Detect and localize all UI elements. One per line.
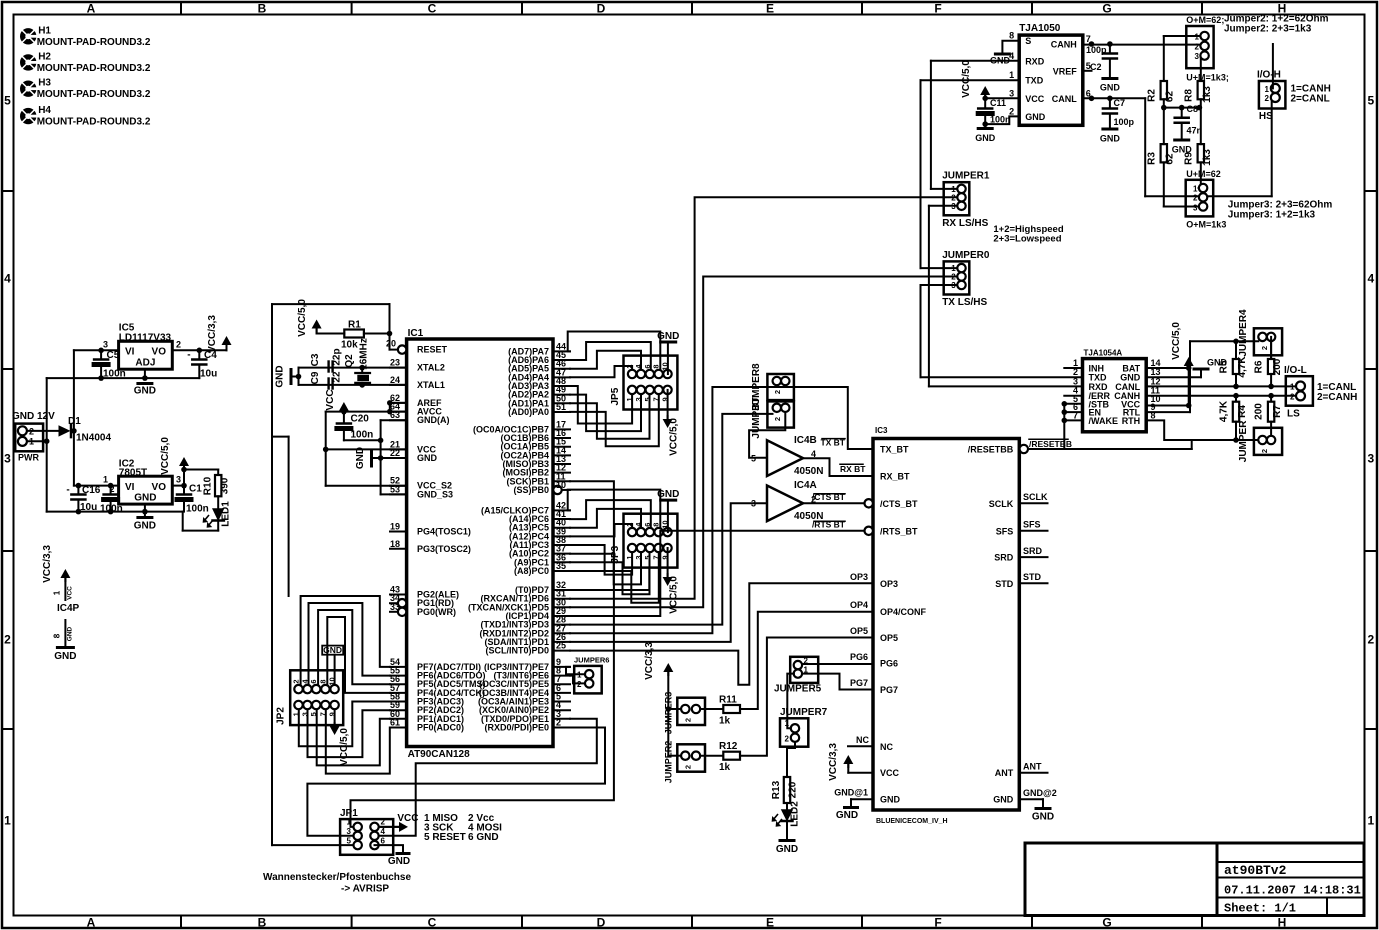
svg-text:3: 3 <box>4 452 11 466</box>
resistor R3 62 <box>1161 144 1167 162</box>
svg-text:2: 2 <box>1260 346 1269 350</box>
svg-text:6 GND: 6 GND <box>468 832 499 843</box>
capacitor C2 100p <box>1109 44 1111 54</box>
wires port C to JP3 maze <box>568 490 661 527</box>
wire CANH to IO-L pin2 <box>1146 395 1296 397</box>
svg-text:GND: GND <box>134 386 156 397</box>
wire VCC pin to AVCC rail <box>326 448 407 450</box>
wire IC5 VO to VCC33 arrow <box>172 349 226 351</box>
pin 4 ERR stub <box>1064 395 1082 397</box>
svg-text:R7: R7 <box>1272 405 1283 418</box>
net stub SFS <box>1019 530 1047 532</box>
svg-text:RX_BT: RX_BT <box>880 472 910 482</box>
wire IC2 VI line <box>74 485 119 487</box>
mounting hole H3 <box>20 81 36 97</box>
svg-text:4: 4 <box>1367 272 1374 286</box>
wire IC2 VO line <box>172 485 184 487</box>
bluetooth module IC3 BLUENICECOM body <box>873 439 1019 811</box>
svg-text:ANT: ANT <box>995 768 1014 778</box>
capacitor C11 100n <box>984 98 986 108</box>
IC1 PF pin stubs and numbers <box>390 666 407 668</box>
wire XTAL1 line <box>299 384 407 386</box>
svg-text:OP4: OP4 <box>850 600 868 610</box>
connector JUMPER4 body <box>1254 328 1282 355</box>
svg-text:G: G <box>1102 916 1111 930</box>
wire RESETBB riser <box>1191 440 1193 449</box>
svg-text:3: 3 <box>103 340 108 350</box>
svg-text:GND: GND <box>134 493 156 504</box>
svg-text:HS: HS <box>1259 111 1273 122</box>
svg-text:C1: C1 <box>189 484 202 495</box>
svg-text:100n: 100n <box>186 504 209 515</box>
svg-text:2: 2 <box>292 679 301 683</box>
svg-text:TXD: TXD <box>1025 76 1044 86</box>
svg-text:VO: VO <box>152 347 167 358</box>
svg-text:GND: GND <box>1032 812 1054 823</box>
svg-text:TX_BT: TX_BT <box>880 445 909 455</box>
svg-text:OP5: OP5 <box>880 633 898 643</box>
wires port A to JP5 maze <box>568 332 661 370</box>
svg-text:2=CANH: 2=CANH <box>1317 392 1357 403</box>
svg-text:Sheet: 1/1: Sheet: 1/1 <box>1224 902 1296 916</box>
svg-text:PG3(TOSC2): PG3(TOSC2) <box>417 544 471 554</box>
ground symbol at C11 <box>984 124 986 128</box>
svg-text:3: 3 <box>176 475 181 485</box>
wire IC4A output to /CTS_BT <box>803 502 864 504</box>
svg-text:C: C <box>428 916 437 930</box>
wire PB1 SCK staircase to JP1 pin1 <box>351 481 614 827</box>
svg-text:GND@1: GND@1 <box>834 788 868 798</box>
connector JUMPER5 body <box>790 657 818 683</box>
svg-text:VCC/3,3: VCC/3,3 <box>42 545 53 583</box>
svg-text:MOUNT-PAD-ROUND3.2: MOUNT-PAD-ROUND3.2 <box>37 37 151 48</box>
svg-text:VCC/5,0: VCC/5,0 <box>961 60 972 98</box>
svg-text:TJA1050: TJA1050 <box>1019 23 1061 34</box>
wire PE1 PDO staircase to JP1 pin4 <box>379 719 597 836</box>
svg-text:22p: 22p <box>332 348 343 365</box>
svg-text:GND(A): GND(A) <box>417 415 450 425</box>
supply VCC/3,3 arrow for jumpers <box>663 663 673 672</box>
svg-text:JUMPER3: JUMPER3 <box>664 692 674 735</box>
wire JP1 pin6 to GND <box>375 845 404 852</box>
svg-text:62: 62 <box>1165 153 1176 165</box>
svg-text:IC3: IC3 <box>875 426 888 435</box>
svg-text:JP5: JP5 <box>610 387 621 405</box>
svg-text:C3: C3 <box>310 353 321 366</box>
svg-text:5: 5 <box>4 94 11 108</box>
capacitor C4 10u <box>198 350 200 359</box>
svg-text:GND: GND <box>67 626 74 641</box>
connector JUMPER10 body <box>677 744 705 771</box>
connector JP3 pin circles <box>628 528 636 536</box>
svg-text:GND: GND <box>1025 112 1046 122</box>
microcontroller IC1 AT90CAN128 body <box>407 339 553 747</box>
svg-text:Wannenstecker/Pfostenbuchse: Wannenstecker/Pfostenbuchse <box>263 872 411 883</box>
svg-text:100n: 100n <box>351 430 374 441</box>
ground symbol IC4P <box>57 646 73 649</box>
svg-text:VCC/5,0: VCC/5,0 <box>160 437 171 475</box>
capacitor C2 100n <box>110 486 112 495</box>
wire LED2 to ground <box>786 821 788 840</box>
pin NC stub <box>848 745 873 747</box>
svg-text:O+M=1k3: O+M=1k3 <box>1186 220 1226 230</box>
ground symbol at LED2 <box>780 839 794 842</box>
wire IC4B output to RX_BT <box>803 458 873 476</box>
wire LED1 to GND rail <box>217 521 219 531</box>
svg-text:GND: GND <box>1100 134 1121 144</box>
wire CANL to IO-L pin1 <box>1146 385 1296 387</box>
wire IC5 ADJ to GND <box>144 369 146 378</box>
connector JP2 body <box>290 670 343 725</box>
connector JP1 body <box>340 819 393 855</box>
svg-text:H: H <box>1278 916 1287 930</box>
svg-text:35: 35 <box>556 561 566 571</box>
svg-text:C: C <box>428 2 437 16</box>
svg-text:PG6: PG6 <box>880 659 898 669</box>
svg-text:PWR: PWR <box>18 453 39 463</box>
crystal Q2 16MHz <box>359 365 365 371</box>
svg-text:(AD0)PA0: (AD0)PA0 <box>508 407 549 417</box>
wire IC2 GND to symbol <box>144 504 146 512</box>
svg-text:IC4B: IC4B <box>794 435 817 446</box>
wire JUMPER5 to JUMPER7 <box>787 674 794 729</box>
wire PE0 PDI staircase to JP1 pin3 <box>307 728 605 836</box>
svg-text:F: F <box>934 916 941 930</box>
ground symbol at crystal <box>290 370 293 384</box>
svg-text:NC: NC <box>856 735 869 745</box>
connector JP5 pin circles <box>628 370 636 378</box>
svg-text:JP2: JP2 <box>275 707 286 725</box>
svg-text:10u: 10u <box>200 369 217 380</box>
svg-text:LED1: LED1 <box>221 501 232 527</box>
svg-text:8: 8 <box>1009 31 1014 41</box>
frame row ticks left <box>2 190 14 192</box>
svg-text:GND: GND <box>993 795 1014 805</box>
svg-text:A: A <box>87 916 96 930</box>
IC1 left pin stubs and numbers <box>398 345 406 353</box>
svg-text:6: 6 <box>309 679 318 683</box>
svg-text:3: 3 <box>1193 204 1198 213</box>
svg-text:G: G <box>1102 2 1111 16</box>
wire R3 bottom to JUMPER3 pin3 <box>1163 162 1165 206</box>
ground symbol at C7 <box>1103 128 1117 131</box>
supply VCC/3,3 at BT VCC pin <box>848 772 873 774</box>
wire PD4 to /RTS_BT <box>570 531 864 616</box>
resistor R11 1k <box>700 708 723 710</box>
wire PD6 RXCAN to JUMPER1 pin2 <box>570 197 957 598</box>
svg-text:JUMPER4: JUMPER4 <box>1238 309 1249 357</box>
wire GND 12V line toward JP2 <box>272 436 289 438</box>
svg-text:JUMPER0: JUMPER0 <box>942 250 990 261</box>
wires port F to JP2 maze <box>301 596 390 685</box>
svg-text:PG0(WR): PG0(WR) <box>417 607 456 617</box>
svg-text:ANT: ANT <box>1023 761 1042 771</box>
svg-text:JUMPER6: JUMPER6 <box>574 656 609 665</box>
svg-text:H1: H1 <box>38 25 51 36</box>
svg-text:I/O-H: I/O-H <box>1257 70 1281 81</box>
svg-text:2: 2 <box>1367 633 1374 647</box>
connector JUMPER0 body <box>944 261 970 294</box>
wire R9 bottom to JUMPER3 pin1 <box>1200 162 1202 188</box>
svg-text:1: 1 <box>1290 383 1295 392</box>
svg-text:JUMPER2: JUMPER2 <box>664 741 674 784</box>
pin 1 INH stub <box>1064 367 1082 369</box>
wire JUMPER5 pin2 to PG6 <box>802 663 873 665</box>
svg-text:RTH: RTH <box>1122 416 1141 426</box>
voltage regulator IC2 7805T <box>119 476 173 504</box>
capacitor C7 100p <box>1109 98 1111 108</box>
svg-text:JUMPER: JUMPER <box>1238 420 1249 462</box>
capacitor C9 22 <box>327 379 329 389</box>
svg-text:24: 24 <box>390 375 400 385</box>
wire R11 to OP4 <box>740 612 873 709</box>
pin /RESETBB bubble and label <box>1020 445 1028 453</box>
wire 12V from PWR to diode <box>27 430 59 432</box>
frame row ticks right <box>1365 190 1378 192</box>
svg-text:47n: 47n <box>1187 126 1203 136</box>
svg-text:/CTS_BT: /CTS_BT <box>880 499 918 509</box>
wire R8 top to JUMPER2 pin3 <box>1200 56 1202 81</box>
svg-text:PG6: PG6 <box>850 652 868 662</box>
svg-text:MOUNT-PAD-ROUND3.2: MOUNT-PAD-ROUND3.2 <box>37 63 151 74</box>
wire R6 into JUMPER4 pin2 <box>1270 337 1272 359</box>
svg-text:GND: GND <box>776 844 798 855</box>
svg-text:STD: STD <box>1023 572 1042 582</box>
svg-text:1: 1 <box>1009 70 1014 80</box>
svg-text:GND_S3: GND_S3 <box>417 489 453 499</box>
net stub ANT <box>1019 772 1047 774</box>
svg-text:VCC: VCC <box>67 586 74 600</box>
svg-text:4,7K: 4,7K <box>1237 356 1248 378</box>
svg-text:1: 1 <box>1193 185 1198 194</box>
svg-text:VCC: VCC <box>325 389 336 410</box>
wire PD5 TXCAN to JUMPER0 pin2 <box>570 277 957 608</box>
wire GND rail upper <box>47 377 200 379</box>
svg-text:(RXD0/PDI)PE0: (RXD0/PDI)PE0 <box>484 723 549 733</box>
svg-text:2: 2 <box>1195 42 1200 51</box>
ground symbol at JP1 <box>397 852 409 855</box>
svg-text:VCC/3,3: VCC/3,3 <box>207 315 218 353</box>
supply VCC/5,0 at JP5 <box>667 390 669 419</box>
svg-text:1k3: 1k3 <box>1202 86 1213 103</box>
wire AVCC line <box>326 411 407 413</box>
svg-text:XTAL2: XTAL2 <box>417 363 445 373</box>
wire CANL down and across <box>1144 98 1146 196</box>
buffer IC4B 4050N <box>767 440 803 476</box>
connector JUMPER9 body <box>677 698 705 725</box>
capacitor C20 100n <box>343 412 345 424</box>
connector JUMPER3 body <box>1186 180 1214 217</box>
svg-text:OP4/CONF: OP4/CONF <box>880 607 927 617</box>
net label GND@1 and ground <box>851 798 873 800</box>
svg-text:GND: GND <box>836 810 858 821</box>
svg-text:VCC: VCC <box>1025 94 1045 104</box>
svg-text:GND 12V: GND 12V <box>12 411 55 422</box>
svg-text:NC: NC <box>880 742 893 752</box>
wire GND pin TJA1054 <box>1146 376 1201 378</box>
resistor R10 390 <box>217 470 219 476</box>
net stub GND@2 and ground <box>1019 798 1043 800</box>
svg-text:5: 5 <box>1367 94 1374 108</box>
wire PD2 RXD1 to TX_BT via JUMPER8 <box>570 387 873 633</box>
svg-text:R8: R8 <box>1184 89 1195 102</box>
svg-text:VCC/5,0: VCC/5,0 <box>669 418 680 456</box>
svg-text:JUMPER1: JUMPER1 <box>942 171 990 182</box>
svg-text:LD1117V33: LD1117V33 <box>119 332 172 343</box>
svg-text:VCC/3,3: VCC/3,3 <box>828 743 839 781</box>
wire RTL to JUMPER4 <box>1146 411 1190 413</box>
supply symbol VCC/3,3 at IC5 output <box>222 336 232 345</box>
svg-text:4050N: 4050N <box>794 466 823 477</box>
svg-text:D: D <box>597 2 606 16</box>
wire PD1 to IC4A input <box>570 503 767 642</box>
connector JUMPER1 body <box>944 182 970 215</box>
supply VCC/5,0 at JP3 <box>667 548 669 577</box>
svg-text:E: E <box>766 2 774 16</box>
svg-text:GND: GND <box>134 521 156 532</box>
svg-text:1: 1 <box>53 590 62 595</box>
svg-text:C9: C9 <box>310 371 321 384</box>
net stub SRD <box>1019 556 1047 558</box>
svg-text:D: D <box>597 916 606 930</box>
wire TXD to JUMPER0 pin1 <box>921 79 1020 81</box>
wire VCC_S2 <box>326 485 407 487</box>
wire RESET loop to JP1 pin5 <box>272 303 390 305</box>
svg-text:4: 4 <box>381 827 386 836</box>
svg-text:1: 1 <box>785 719 790 728</box>
svg-text:R13: R13 <box>771 780 782 799</box>
svg-text:RX LS/HS: RX LS/HS <box>942 218 988 229</box>
svg-text:100n: 100n <box>990 115 1011 125</box>
svg-text:-> AVRISP: -> AVRISP <box>341 884 389 895</box>
svg-text:200: 200 <box>1254 403 1265 420</box>
wire R2 top to JUMPER2 pin1 <box>1163 36 1165 81</box>
svg-text:1: 1 <box>103 475 108 485</box>
svg-text:R10: R10 <box>203 476 214 495</box>
svg-text:07.11.2007 14:18:31: 07.11.2007 14:18:31 <box>1224 884 1361 898</box>
svg-text:AT90CAN128: AT90CAN128 <box>408 749 470 760</box>
connector JP1 pin circles <box>354 823 362 831</box>
svg-text:C7: C7 <box>1114 98 1126 108</box>
wire STB EN WAKE tie to RESETBB <box>1064 403 1082 405</box>
svg-text:2: 2 <box>684 718 693 722</box>
ground symbol at C8 <box>1175 139 1189 142</box>
wire CANH net <box>1083 44 1200 46</box>
svg-text:RXD: RXD <box>1025 56 1045 66</box>
svg-text:A: A <box>87 2 96 16</box>
resistor R1 10k <box>344 330 364 338</box>
svg-text:CANH: CANH <box>1051 40 1077 50</box>
resistor R8 1k3 <box>1198 81 1204 99</box>
wire PD0 to OP3 <box>570 583 873 685</box>
svg-text:5: 5 <box>347 837 352 846</box>
connector I/O-H body <box>1259 81 1286 109</box>
connector JP3 body <box>624 514 678 568</box>
can transceiver IC TJA1050 body <box>1019 35 1083 125</box>
svg-text:R5: R5 <box>1219 360 1230 373</box>
svg-text:GND: GND <box>275 365 286 387</box>
resistor R2 62 <box>1161 81 1167 99</box>
svg-text:JUMPBT: JUMPBT <box>751 397 762 438</box>
svg-text:F: F <box>934 2 941 16</box>
svg-text:R12: R12 <box>719 741 738 752</box>
svg-text:C11: C11 <box>990 98 1006 108</box>
svg-text:LS: LS <box>1287 409 1300 420</box>
svg-text:1: 1 <box>1265 85 1270 94</box>
svg-text:S: S <box>1025 36 1031 46</box>
resistor R7 200 <box>1270 396 1272 402</box>
connector JUMPER6 body <box>574 666 602 694</box>
svg-text:390: 390 <box>220 477 231 494</box>
svg-text:10k: 10k <box>341 340 358 351</box>
ground symbol at pin 22 <box>370 451 373 466</box>
svg-text:2: 2 <box>1260 449 1269 453</box>
svg-text:B: B <box>258 2 267 16</box>
svg-text:IC4P: IC4P <box>57 603 80 614</box>
svg-text:200: 200 <box>1272 358 1283 375</box>
mounting hole H4 <box>20 108 36 124</box>
wire GND(A) to GND net <box>381 419 407 421</box>
svg-text:3: 3 <box>1367 452 1374 466</box>
resistor R6 200 <box>1270 341 1272 359</box>
wire CANL riser to IO-H pin2 <box>1271 98 1273 197</box>
svg-text:C5: C5 <box>107 350 120 361</box>
svg-text:RESET: RESET <box>417 345 448 355</box>
resistor R13 220 <box>784 777 790 803</box>
svg-text:MOUNT-PAD-ROUND3.2: MOUNT-PAD-ROUND3.2 <box>37 117 151 128</box>
wire RTH to lower jumper <box>1146 420 1258 440</box>
svg-text:OP3: OP3 <box>880 579 898 589</box>
frame column ticks top <box>180 2 182 15</box>
ground symbol at C2 <box>1103 77 1117 80</box>
wire XTAL2 line <box>299 367 407 369</box>
connector JUMPER7 body <box>780 718 808 746</box>
svg-text:SCLK: SCLK <box>1023 492 1048 502</box>
svg-text:RX BT: RX BT <box>840 464 866 474</box>
svg-text:1: 1 <box>1195 33 1200 42</box>
svg-text:GND: GND <box>323 645 342 655</box>
svg-text:GND: GND <box>355 447 366 469</box>
svg-text:8: 8 <box>318 679 327 683</box>
svg-text:BLUENICECOM_IV_H: BLUENICECOM_IV_H <box>876 818 948 825</box>
svg-text:at90BTv2: at90BTv2 <box>1224 863 1287 878</box>
svg-text:VCC/5,0: VCC/5,0 <box>1171 322 1182 360</box>
svg-text:H3: H3 <box>38 78 51 89</box>
svg-text:22: 22 <box>332 371 343 383</box>
resistor R4 4,7K <box>1235 396 1237 402</box>
svg-text:VO: VO <box>152 482 167 493</box>
ground symbol at JP3 <box>661 499 676 502</box>
svg-text:GND: GND <box>388 856 410 867</box>
svg-text:/RTS_BT: /RTS_BT <box>880 526 918 536</box>
svg-text:33: 33 <box>390 602 400 612</box>
wire JUMPER7 pin2 to R13 <box>787 742 795 777</box>
supply symbol VCC/5,0 at IC2 output <box>183 466 185 486</box>
capacitor C5 100n <box>100 350 102 359</box>
wire CANH to IO-H pin1 <box>1272 44 1274 88</box>
connector JP2 pin circles <box>294 685 302 693</box>
svg-text:1k3: 1k3 <box>1202 149 1213 166</box>
svg-text:R6: R6 <box>1254 360 1265 373</box>
svg-text:2: 2 <box>684 765 693 769</box>
svg-text:SFS: SFS <box>996 526 1014 536</box>
mounting hole H2 <box>20 54 36 70</box>
svg-text:OP3: OP3 <box>850 572 868 582</box>
svg-text:GND: GND <box>1100 83 1121 93</box>
resistor R9 1k3 <box>1198 144 1204 162</box>
svg-text:SCLK: SCLK <box>989 499 1014 509</box>
svg-text:MOUNT-PAD-ROUND3.2: MOUNT-PAD-ROUND3.2 <box>37 89 151 100</box>
